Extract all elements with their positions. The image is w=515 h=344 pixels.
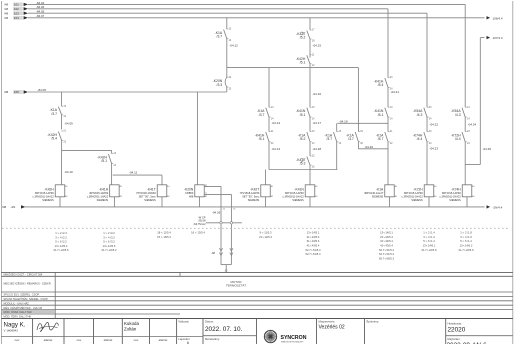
svg-text:3RT2015-1AP90: 3RT2015-1AP90	[89, 191, 109, 195]
svg-text:-04.15: -04.15	[313, 43, 322, 47]
svg-text:5 ∿ 6 /1.4: 5 ∿ 6 /1.4	[460, 239, 472, 243]
svg-text:102: 102	[14, 7, 19, 11]
svg-text:SIEMENS: SIEMENS	[372, 194, 384, 198]
svg-text:/3.7: /3.7	[217, 35, 223, 39]
svg-text:/48: /48	[2, 205, 7, 209]
svg-text:104: 104	[14, 16, 19, 20]
svg-text:-K41T: -K41T	[147, 188, 156, 192]
svg-text:Változat:: Változat:	[178, 319, 189, 323]
svg-text:/5.1: /5.1	[378, 113, 384, 117]
svg-text:3 ∿ 4 /1.9: 3 ∿ 4 /1.9	[460, 235, 472, 239]
svg-text:21∿12/5.3: 21∿12/5.3	[259, 235, 272, 239]
svg-text:c.3RH2911-1HA22: c.3RH2911-1HA22	[402, 194, 424, 198]
svg-text:3 ∿ 4 /1.4: 3 ∿ 4 /1.4	[423, 235, 435, 239]
svg-text:22020: 22020	[448, 327, 466, 334]
svg-text:3RT2015-1AP90: 3RT2015-1AP90	[285, 191, 305, 195]
svg-text:3 ∿ 4 /2.2: 3 ∿ 4 /2.2	[55, 235, 67, 239]
svg-text:2022. 07. 10.: 2022. 07. 10.	[205, 326, 243, 333]
svg-text:13∿14/6.2: 13∿14/6.2	[460, 244, 473, 248]
svg-text:/5.1: /5.1	[259, 137, 265, 141]
svg-text:3x0,75mm2: 3x0,75mm2	[193, 224, 206, 226]
svg-text:Nagy K.: Nagy K.	[4, 322, 26, 329]
svg-text:1 ∿ 2 /1.8: 1 ∿ 2 /1.8	[460, 231, 472, 235]
svg-text:5 ∿ 6 /2.2: 5 ∿ 6 /2.2	[55, 240, 67, 244]
svg-text:41∿43/5.4: 41∿43/5.4	[380, 244, 393, 248]
svg-text:-84.06: -84.06	[36, 5, 45, 9]
svg-text:3RH2140-1AL27: 3RH2140-1AL27	[364, 191, 384, 195]
svg-text:SYNCRON: SYNCRON	[281, 335, 307, 341]
svg-text:V 1#08942: V 1#08942	[4, 329, 19, 333]
svg-text:-84.05: -84.05	[38, 88, 47, 92]
svg-text:101: 101	[14, 3, 19, 7]
svg-text:62.7∿61/5.4: 62.7∿61/5.4	[306, 252, 321, 256]
svg-text:SIEMENS: SIEMENS	[411, 198, 423, 202]
svg-text:Építmény:: Építmény:	[367, 318, 380, 323]
svg-text:/3.3: /3.3	[217, 83, 223, 87]
svg-text:31∿34/5.4: 31∿34/5.4	[380, 239, 393, 243]
svg-text:-04.17: -04.17	[313, 121, 322, 125]
svg-text:-2N: -2N	[11, 205, 16, 209]
svg-text:103: 103	[14, 11, 19, 15]
svg-text:62.7∿61/5.4: 62.7∿61/5.4	[379, 252, 394, 256]
svg-text:-84.05: -84.05	[36, 10, 45, 14]
svg-text:Rajzszám:: Rajzszám:	[448, 337, 461, 341]
svg-text:Hivatkozás:: Hivatkozás:	[448, 321, 463, 325]
svg-text:13∿14/5.1: 13∿14/5.1	[380, 231, 393, 235]
svg-text:52.7∿51/5.4: 52.7∿51/5.4	[306, 248, 321, 252]
svg-text:c.3RH2911-1HA22: c.3RH2911-1HA22	[283, 194, 305, 198]
svg-text:-04.10: -04.10	[64, 170, 73, 174]
svg-text:52.7∿51/5.4: 52.7∿51/5.4	[379, 248, 394, 252]
svg-text:/3.7: /3.7	[51, 112, 57, 116]
svg-text:16 ∿ 13/5.4: 16 ∿ 13/5.4	[191, 231, 205, 235]
svg-text:/5.1: /5.1	[300, 60, 306, 64]
svg-text:/5.4: /5.4	[378, 83, 384, 87]
svg-text:-04.25: -04.25	[483, 147, 492, 151]
svg-text:41∿43/5.4: 41∿43/5.4	[307, 244, 320, 248]
svg-text:/5.1: /5.1	[300, 113, 306, 117]
svg-text:/5.1: /5.1	[101, 159, 107, 163]
svg-text:SIEMENS: SIEMENS	[97, 198, 109, 202]
svg-text:c.3RH2911-1HA22: c.3RH2911-1HA22	[33, 194, 55, 198]
svg-text:-04.24: -04.24	[468, 122, 477, 126]
svg-text:SET "50", 5sec: SET "50", 5sec	[139, 194, 157, 198]
svg-text:/48: /48	[4, 7, 9, 11]
svg-text:IPARI ELEKTRONIKA KFT.: IPARI ELEKTRONIKA KFT.	[281, 340, 304, 343]
svg-text:név: név	[77, 338, 82, 342]
svg-text:aláírás: aláírás	[159, 338, 168, 342]
svg-text:21∿24/5.4: 21∿24/5.4	[307, 235, 320, 239]
svg-text:-04.09: -04.09	[64, 121, 73, 125]
svg-text:MODUL/L - UHU HÁZ: MODUL/L - UHU HÁZ	[4, 301, 30, 305]
svg-text:SIEMENS: SIEMENS	[449, 198, 461, 202]
svg-text:/3.7: /3.7	[348, 137, 354, 141]
svg-text:-K41H: -K41H	[99, 188, 109, 192]
svg-text:-04.20: -04.20	[365, 145, 374, 149]
svg-text:/4.3: /4.3	[417, 113, 423, 117]
svg-text:-X8: -X8	[211, 251, 216, 255]
svg-text:-2N/4.4: -2N/4.4	[493, 205, 503, 209]
svg-text:/48: /48	[4, 16, 9, 20]
svg-text:-K1A: -K1A	[376, 188, 384, 192]
svg-text:-K74H: -K74H	[451, 188, 461, 192]
svg-text:-04.22: -04.22	[430, 122, 439, 126]
svg-text:3RT2015-1AP90: 3RT2015-1AP90	[442, 191, 462, 195]
svg-text:SPL/CO 50/1. SZEREL. CSOP.: SPL/CO 50/1. SZEREL. CSOP.	[4, 293, 40, 297]
svg-text:-04.16: -04.16	[313, 92, 322, 96]
svg-text:-84.07: -84.07	[36, 14, 45, 18]
svg-text:-04.11: -04.11	[129, 170, 138, 174]
svg-text:/48: /48	[4, 3, 9, 7]
svg-text:SIEMENS: SIEMENS	[144, 198, 156, 202]
svg-text:21.7∿22/5.9: 21.7∿22/5.9	[459, 248, 474, 252]
svg-text:c.3RH2911-1HA22: c.3RH2911-1HA22	[87, 194, 109, 198]
svg-text:c.3RH2911-1HA22: c.3RH2911-1HA22	[440, 194, 462, 198]
svg-text:/5.7: /5.7	[378, 137, 384, 141]
svg-text:1 ∿ 2 /3.2: 1 ∿ 2 /3.2	[103, 231, 115, 235]
svg-text:488: 488	[189, 194, 194, 198]
svg-text:/5.2: /5.2	[300, 36, 306, 40]
svg-text:21.7∿22/5.6: 21.7∿22/5.6	[54, 248, 69, 252]
svg-text:-K42T: -K42T	[250, 188, 259, 192]
svg-text:7PV1518-1AW30: 7PV1518-1AW30	[240, 191, 260, 195]
svg-text:13∿14/6.1: 13∿14/6.1	[423, 244, 436, 248]
svg-text:SIEMENS: SIEMENS	[42, 198, 54, 202]
svg-text:13∿14/5.2: 13∿14/5.2	[55, 244, 68, 248]
svg-text:-K72H: -K72H	[413, 188, 423, 192]
svg-text:3RT2015-1AP90: 3RT2015-1AP90	[35, 191, 55, 195]
svg-text:-W CP: -W CP	[198, 215, 206, 219]
svg-text:Méretarány:: Méretarány:	[205, 337, 220, 341]
svg-text:/4.3: /4.3	[455, 113, 461, 117]
svg-text:-K41N: -K41N	[294, 188, 304, 192]
svg-text:-K42H: -K42H	[44, 188, 54, 192]
svg-text:név: név	[134, 338, 139, 342]
svg-text:/3.7: /3.7	[326, 137, 332, 141]
svg-text:65.7∿66/5.3: 65.7∿66/5.3	[379, 256, 394, 260]
svg-text:SIEMENS: SIEMENS	[292, 198, 304, 202]
svg-text:-04.23: -04.23	[430, 146, 439, 150]
svg-text:Zoltán: Zoltán	[124, 327, 137, 332]
svg-text:1 ∿ 2 /1.4: 1 ∿ 2 /1.4	[423, 231, 435, 235]
svg-text:-84.04: -84.04	[36, 1, 45, 5]
svg-text:-04.14: -04.14	[272, 147, 281, 151]
svg-text:/5.3: /5.3	[300, 162, 306, 166]
svg-text:13∿14/5.1: 13∿14/5.1	[307, 231, 320, 235]
svg-text:-04.18: -04.18	[313, 147, 322, 151]
svg-text:105: 105	[14, 90, 19, 94]
svg-text:05L/08: 05L/08	[198, 221, 206, 223]
svg-text:15 ∿ 16/5.4: 15 ∿ 16/5.4	[157, 235, 171, 239]
svg-text:/4.4: /4.4	[417, 137, 423, 141]
svg-text:3RT2015-1AP90: 3RT2015-1AP90	[404, 191, 424, 195]
svg-text:Vezérlés 02: Vezérlés 02	[319, 325, 345, 331]
svg-text:-04.19: -04.19	[339, 119, 348, 123]
svg-text:SET "50", 5sec: SET "50", 5sec	[242, 194, 260, 198]
svg-text:-K20N: -K20N	[184, 188, 194, 192]
svg-text:/5.2: /5.2	[300, 137, 306, 141]
svg-text:/48: /48	[4, 90, 9, 94]
svg-text:/48: /48	[4, 11, 9, 15]
svg-text:9 ∿ 11/5.3: 9 ∿ 11/5.3	[259, 231, 272, 235]
svg-text:Dátum:: Dátum:	[205, 319, 214, 323]
svg-text:Megnevezés:: Megnevezés:	[319, 319, 336, 323]
svg-text:18 ∿ 11/5.4: 18 ∿ 11/5.4	[157, 231, 171, 235]
svg-text:107/4.4: 107/4.4	[493, 36, 503, 40]
svg-text:TERMOSZTÁT: TERMOSZTÁT	[226, 283, 246, 287]
svg-text:-04.21: -04.21	[391, 90, 400, 94]
svg-text:aláírás: aláírás	[44, 338, 53, 342]
svg-text:Kukoda: Kukoda	[124, 321, 139, 326]
svg-text:21∿24/5.4: 21∿24/5.4	[380, 235, 393, 239]
svg-text:13∿14/5.6: 13∿14/5.6	[103, 244, 116, 248]
svg-text:3 ∿ 4 /3.2: 3 ∿ 4 /3.2	[103, 235, 115, 239]
svg-text:106/4.4: 106/4.4	[493, 16, 503, 20]
svg-text:SIEMENS: SIEMENS	[248, 198, 260, 202]
svg-text:5 ∿ 6 /1.4: 5 ∿ 6 /1.4	[423, 239, 435, 243]
svg-text:/4.4: /4.4	[455, 137, 461, 141]
svg-text:7PV1518-1AW30: 7PV1518-1AW30	[136, 191, 156, 195]
svg-text:-04.12: -04.12	[229, 43, 238, 47]
svg-text:aláírás: aláírás	[104, 338, 113, 342]
svg-text:-04.26: -04.26	[212, 210, 221, 214]
svg-text:név: név	[15, 338, 20, 342]
svg-text:21.7∿22/5.9: 21.7∿22/5.9	[422, 248, 437, 252]
svg-text:CRB50: CRB50	[185, 191, 194, 195]
svg-text:5 ∿ 6 /3.2: 5 ∿ 6 /3.2	[103, 240, 115, 244]
svg-text:21.7∿22/5.2: 21.7∿22/5.2	[102, 248, 117, 252]
svg-text:/5.4: /5.4	[51, 137, 57, 141]
svg-text:/3.7: /3.7	[259, 113, 265, 117]
svg-text:-04.13: -04.13	[272, 121, 281, 125]
svg-text:31∿34/5.4: 31∿34/5.4	[307, 239, 320, 243]
svg-text:1 ∿ 2 /2.4: 1 ∿ 2 /2.4	[55, 231, 67, 235]
